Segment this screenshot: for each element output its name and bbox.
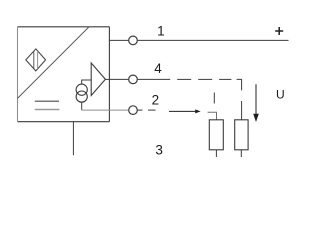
load 2 resistor bbox=[235, 120, 248, 157]
wire 2 solid stub bbox=[138, 109, 143, 111]
wire 1 to supply plus bbox=[138, 39, 289, 41]
svg-text:3: 3 bbox=[155, 143, 163, 158]
sensor body diagonal divider bbox=[18, 27, 90, 99]
load 1 branch dash from wire 4 bbox=[213, 93, 215, 104]
sensor body U1 (outline) bbox=[18, 27, 110, 122]
terminal 1 circle bbox=[129, 36, 138, 45]
wire 4 corner down bbox=[237, 79, 242, 90]
output amplifier (triangle) bbox=[91, 63, 105, 96]
wire pin 4 stub bbox=[109, 78, 128, 80]
terminal 4 circle bbox=[129, 75, 138, 84]
wire 4 vertical dash to load 2 bbox=[241, 101, 243, 120]
wire 4 dashed run bbox=[177, 78, 231, 80]
wire 2 dash bbox=[148, 109, 156, 111]
label 1 bbox=[157, 23, 165, 38]
load 1 top step connection bbox=[208, 112, 217, 120]
wire 4 solid part bbox=[138, 78, 171, 80]
wire from current source to amplifier input bbox=[82, 80, 92, 84]
plus sign bbox=[275, 27, 283, 35]
wire 3 lead bbox=[72, 122, 74, 156]
wire from amplifier apex to box edge bbox=[105, 78, 109, 80]
label 2 bbox=[152, 93, 160, 108]
svg-text:2: 2 bbox=[152, 93, 160, 108]
DC supply symbol (=) bbox=[35, 101, 60, 109]
inductive sensing face symbol (diamond) bbox=[26, 49, 46, 71]
wire from current source to pin 2 bbox=[82, 102, 129, 110]
label U bbox=[276, 88, 285, 102]
svg-text:4: 4 bbox=[154, 61, 162, 76]
current source symbol (two circles) bbox=[76, 84, 87, 102]
current direction arrow bbox=[169, 109, 201, 113]
svg-text:U: U bbox=[276, 88, 285, 102]
wire pin 1 stub bbox=[109, 39, 128, 41]
load 1 resistor bbox=[209, 120, 223, 157]
svg-text:1: 1 bbox=[157, 23, 165, 38]
terminal 2 circle bbox=[129, 106, 138, 115]
voltage U arrow bbox=[253, 84, 259, 122]
label 3 bbox=[155, 143, 163, 158]
label 4 bbox=[154, 61, 162, 76]
